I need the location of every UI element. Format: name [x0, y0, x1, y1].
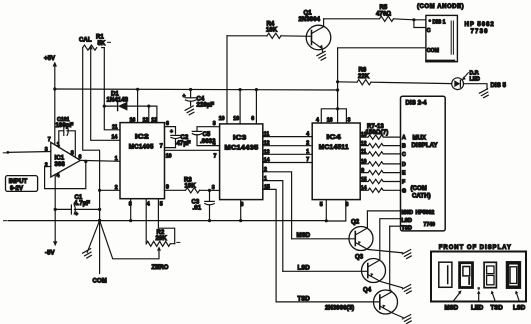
svg-text:IC2: IC2: [135, 134, 149, 141]
svg-text:16: 16: [130, 117, 136, 123]
transistor Q1 2N3904: [299, 11, 331, 53]
COM branch left leg to ground: [87, 221, 99, 253]
node C1 left: [54, 208, 57, 211]
svg-text:7: 7: [214, 153, 217, 159]
svg-text:10: 10: [166, 154, 172, 160]
svg-text:4: 4: [57, 173, 60, 179]
svg-text:8: 8: [71, 151, 74, 157]
wire R1 left leg down to corner: [83, 48, 100, 221]
wire IC3p12-IC4p2: [263, 145, 312, 147]
svg-text:12: 12: [143, 117, 149, 123]
svg-text:5K: 5K: [98, 41, 106, 47]
LED D.P. with DIS 5: [452, 70, 507, 89]
svg-text:1: 1: [306, 149, 309, 155]
svg-text:LED: LED: [471, 305, 484, 311]
wire IC3 pin1 LSD drive: [263, 181, 283, 272]
node COM apex: [98, 219, 101, 222]
svg-text:Q2: Q2: [351, 219, 360, 225]
svg-text:4: 4: [306, 131, 309, 137]
resistor R4 10K: [227, 22, 312, 39]
svg-text:R1: R1: [96, 35, 104, 41]
node rail-C4: [189, 88, 192, 91]
svg-text:4: 4: [316, 118, 319, 124]
svg-text:MC1405: MC1405: [129, 144, 154, 151]
wire IC3 pin15 TSD drive: [263, 189, 276, 302]
wire pin7 from +5V: [54, 89, 56, 145]
svg-text:6: 6: [251, 116, 254, 122]
svg-text:3: 3: [212, 185, 215, 191]
svg-text:2N3906(3): 2N3906(3): [325, 306, 354, 312]
svg-text:10: 10: [219, 116, 225, 122]
capacitor C2: [165, 127, 191, 148]
capacitor C5: [192, 121, 219, 147]
svg-text:308: 308: [55, 162, 66, 168]
svg-text:2: 2: [45, 163, 48, 169]
ground Q4: [402, 315, 411, 324]
node +5V junction: [53, 87, 56, 90]
diode D1 1N4148: [104, 92, 149, 111]
svg-text:DIS 5: DIS 5: [491, 83, 507, 89]
svg-text:C: C: [427, 28, 431, 34]
svg-text:Q1: Q1: [304, 11, 313, 17]
pointer arrows: [453, 293, 460, 302]
IC4 top bracket: [321, 109, 346, 123]
IC4 MC14511: [306, 118, 360, 209]
transistor Q2: [349, 211, 403, 253]
node output junction: [84, 160, 87, 163]
svg-text:COM: COM: [93, 279, 107, 285]
svg-text:MC14511: MC14511: [319, 144, 349, 151]
node rail-IC4pin5: [325, 219, 328, 222]
node D1 left junction: [103, 105, 106, 108]
svg-text:9: 9: [166, 185, 169, 191]
resistor R1 CAL pot: [79, 35, 111, 51]
wire IC2 pin2: [100, 189, 120, 191]
svg-text:6: 6: [79, 155, 82, 161]
node D1 right junction: [147, 105, 150, 108]
svg-text:(COM: (COM: [411, 186, 427, 192]
wiper arrowhead: [89, 45, 93, 50]
COM right leg to ZERO wiper: [100, 221, 159, 259]
wire IC3 pin6: [255, 90, 257, 124]
INPUT box: [6, 176, 38, 192]
svg-text:IC1: IC1: [55, 156, 65, 162]
node R3-C3 junction: [208, 189, 211, 192]
svg-text:(COM ANODE): (COM ANODE): [417, 4, 464, 10]
node rail-IC3pin16: [239, 88, 242, 91]
wire R1 right leg down: [104, 48, 120, 130]
svg-text:G: G: [402, 188, 406, 194]
wire IC2 pin5 to R2 right: [158, 199, 174, 244]
svg-text:IC3: IC3: [233, 134, 247, 141]
wire input to pin3: [8, 151, 51, 154]
COM center stem: [99, 221, 101, 274]
svg-text:2: 2: [306, 140, 309, 146]
svg-text:LSD: LSD: [298, 265, 311, 271]
ground Q2: [402, 250, 411, 259]
svg-text:7730: 7730: [471, 29, 489, 35]
svg-text:DISPLAY: DISPLAY: [412, 143, 438, 149]
svg-text:5: 5: [320, 202, 323, 208]
ground Q1: [317, 51, 326, 60]
svg-text:47µF: 47µF: [177, 141, 191, 147]
svg-text:.0033: .0033: [200, 139, 216, 145]
svg-text:3: 3: [348, 118, 351, 124]
decimal point LED: [478, 287, 480, 289]
svg-text:3: 3: [213, 121, 216, 127]
svg-text:CAL: CAL: [79, 38, 92, 44]
capacitor C101: [56, 117, 76, 156]
wire IC2 pin8 to rail: [130, 199, 132, 221]
wire IC2 pin4 to R2: [145, 199, 147, 244]
svg-text:C5: C5: [203, 132, 211, 138]
svg-text:INPUT: INPUT: [9, 179, 28, 185]
op-amp IC1 308: [45, 137, 82, 179]
svg-text:HP5082: HP5082: [416, 210, 435, 216]
wire to DIS1 C pin: [414, 20, 426, 28]
node rail-IC3pin6: [255, 88, 258, 91]
node rail-IC2pin16: [136, 88, 139, 91]
node pin2 tap: [98, 189, 101, 192]
svg-text:A: A: [402, 135, 406, 141]
display DIS1 HP5082-7730: [417, 4, 495, 62]
svg-text:MC14435: MC14435: [225, 144, 259, 151]
node R5-DIS1: [412, 18, 415, 21]
wire pin2 feedback loop: [45, 162, 86, 189]
node rail-IC3pin8: [239, 219, 242, 222]
capacitor C1: [55, 195, 99, 218]
svg-text:+: +: [183, 94, 186, 100]
wiper arrowhead R2: [157, 246, 161, 251]
svg-text:DIS 1: DIS 1: [433, 19, 446, 25]
svg-text:4: 4: [147, 202, 150, 208]
display DIS2-4 MUX: [401, 96, 446, 231]
svg-text:ZERO: ZERO: [152, 265, 169, 271]
svg-text:2: 2: [115, 185, 118, 191]
svg-text:1: 1: [57, 142, 60, 148]
node rail-C3: [208, 219, 211, 222]
node R6 tap: [336, 80, 339, 83]
wire R4/IC3 pin10 drop: [226, 36, 228, 124]
resistor R2 20K ZERO pot: [146, 230, 180, 246]
svg-text:B: B: [402, 144, 406, 150]
wire IC3 pin2 MSD drive: [263, 172, 292, 239]
digit 2 "7": [460, 263, 473, 288]
resistor R3 10K: [165, 178, 220, 193]
svg-text:+: +: [170, 129, 173, 135]
wire IC4 pin8 to rail: [326, 200, 346, 221]
input terminal: [6, 151, 9, 154]
svg-text:4.7µF: 4.7µF: [74, 201, 90, 207]
svg-text:10K: 10K: [266, 28, 278, 34]
transistor Q4: [363, 226, 403, 317]
digit LSD "0": [508, 263, 520, 287]
resistor R5 470ohm: [324, 5, 426, 21]
svg-text:TSD: TSD: [491, 305, 504, 311]
svg-text:C: C: [402, 152, 406, 158]
svg-text:MUX: MUX: [413, 136, 427, 142]
wire IC2pin10 to IC3pin7: [165, 149, 220, 151]
svg-text:5: 5: [160, 202, 163, 208]
svg-text:22K: 22K: [358, 74, 370, 80]
node rail-IC2pin8: [129, 219, 132, 222]
svg-text:CATH): CATH): [412, 194, 431, 200]
wire IC2 pin12 drop: [148, 106, 150, 123]
front of display panel: [431, 245, 526, 311]
wire IC2 pin16 drop: [137, 89, 139, 122]
node C1 right: [98, 208, 101, 211]
ground C4: [185, 106, 194, 115]
svg-text:7: 7: [160, 144, 163, 150]
svg-text:R6: R6: [359, 68, 367, 74]
resistors R7-13 150ohm: [360, 124, 400, 193]
ground DIS5: [479, 89, 488, 98]
IC3 MC14435: [219, 116, 270, 208]
svg-text:16: 16: [327, 118, 333, 124]
svg-text:MSD: MSD: [402, 210, 414, 216]
svg-text:220µF: 220µF: [197, 103, 215, 109]
svg-text:F: F: [402, 180, 405, 186]
svg-text:.01: .01: [193, 206, 202, 212]
svg-text:COM: COM: [427, 48, 439, 54]
svg-text:Q3: Q3: [355, 254, 364, 260]
svg-text:7740: 7740: [424, 222, 436, 228]
wire COM-anode line to DIS1: [338, 48, 426, 109]
svg-text:13: 13: [151, 117, 157, 123]
svg-text:LED: LED: [470, 76, 481, 82]
svg-text:150Ω(7): 150Ω(7): [366, 130, 389, 136]
svg-text:FRONT OF DISPLAY: FRONT OF DISPLAY: [439, 245, 512, 251]
svg-text:LSD: LSD: [402, 218, 413, 224]
svg-text:0-2V: 0-2V: [10, 186, 23, 192]
transistor Q3: [355, 219, 403, 288]
svg-text:Q4: Q4: [363, 287, 372, 293]
svg-text:MSD: MSD: [297, 233, 311, 239]
digit MSD "1": [439, 262, 452, 287]
wire pin4 to -5V: [54, 175, 56, 241]
wire D1 to IC2 pin13: [149, 106, 157, 123]
wire R1 wiper to IC2 pin14: [91, 50, 120, 140]
svg-text:1: 1: [115, 156, 118, 162]
svg-text:R5: R5: [380, 5, 388, 11]
svg-text:DIS 2-4: DIS 2-4: [406, 101, 428, 107]
wire IC3 pin8 to rail: [240, 200, 242, 221]
svg-text:TSD: TSD: [402, 225, 413, 231]
wire IC3p14-IC4p7: [263, 162, 312, 164]
svg-text:IC4: IC4: [327, 134, 342, 141]
capacitor C3: [192, 190, 215, 220]
wire +5V rail: [55, 89, 338, 90]
svg-text:+5V: +5V: [44, 56, 55, 62]
wire IC4 pin5 to rail: [325, 200, 327, 221]
svg-text:16: 16: [233, 116, 239, 122]
resistor R6 22K: [338, 68, 452, 85]
wire output to IC2 pin1: [80, 159, 120, 162]
svg-text:7: 7: [306, 157, 309, 163]
svg-text:7: 7: [48, 137, 51, 143]
digit TSD "8": [484, 262, 496, 287]
node bracket center: [336, 107, 339, 110]
ground Q3: [402, 285, 411, 294]
svg-text:100pF: 100pF: [56, 123, 74, 129]
svg-text:14: 14: [112, 135, 118, 141]
wire IC3 pin16: [239, 90, 241, 124]
-5V supply: [45, 241, 57, 256]
svg-text:LSD: LSD: [513, 305, 526, 311]
bottom common rail: [4, 220, 7, 222]
node rail-right-end: [336, 88, 339, 91]
svg-text:11: 11: [112, 125, 118, 131]
svg-text:2N3904: 2N3904: [299, 17, 321, 23]
svg-text:D: D: [402, 162, 406, 168]
IC2 MC1405: [112, 117, 172, 207]
+5V supply: [44, 56, 57, 89]
svg-text:HP 5082: HP 5082: [465, 22, 495, 28]
svg-text:-5V: -5V: [45, 251, 55, 257]
svg-text:MSD: MSD: [445, 305, 459, 311]
svg-text:E: E: [402, 171, 406, 177]
wire IC3p11-IC4p4: [263, 136, 312, 138]
capacitor C4: [183, 90, 215, 109]
wire IC3p13-IC4p1: [263, 153, 312, 155]
ground COM: [83, 249, 92, 258]
